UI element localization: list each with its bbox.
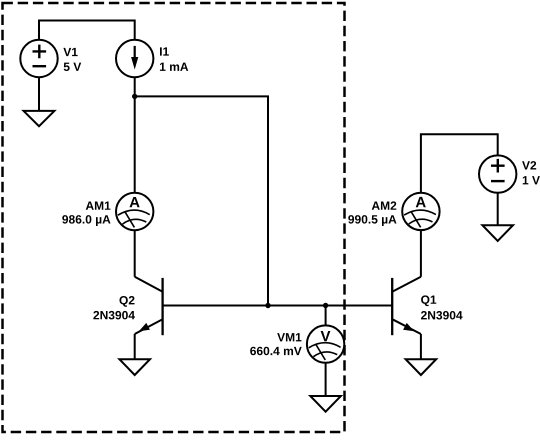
transistor Q1 (NPN 2N3904): [392, 277, 421, 335]
label AM2 990.5 uA: [348, 201, 396, 226]
label AM1 986.0 uA: [62, 202, 110, 226]
label VM1 660.4 mV: [250, 333, 302, 355]
ground (V2): [482, 225, 513, 241]
voltmeter VM1: [307, 325, 344, 362]
ground (VM1): [310, 396, 341, 412]
node junction at I1 output: [132, 94, 137, 99]
node junction: feedback branch on base bus: [265, 303, 270, 308]
wire: V2 to ground: [497, 193, 499, 225]
ammeter AM2: [402, 193, 439, 230]
wire: base bus to VM1: [325, 306, 327, 326]
ground (Q2): [119, 359, 150, 375]
node junction: VM1 tap on base bus: [323, 303, 328, 308]
label Q1 2N3904: [421, 295, 463, 319]
ground (V1): [24, 111, 55, 126]
wire: I1 to AM1: [134, 77, 136, 193]
label V2 1 V: [522, 161, 540, 184]
wire: AM2 top to V2 top: [421, 134, 498, 193]
ground (Q1): [406, 359, 437, 375]
label Q2 2N3904: [93, 296, 135, 319]
label V1 5 V: [63, 48, 81, 71]
ammeter AM1: [116, 193, 153, 230]
wire: Q2 emitter to ground: [134, 334, 136, 359]
wire: Q1 emitter to ground: [420, 334, 422, 359]
wire: junction right and down to base bus: [135, 96, 268, 305]
wire: base bus Q2 to Q1: [163, 305, 393, 307]
wire: AM1 to Q2 collector: [134, 230, 136, 277]
label I1 1 mA: [160, 47, 188, 71]
wire: VM1 to ground: [325, 363, 327, 396]
wire: V1 to ground: [38, 77, 40, 111]
wire: Q1 collector to AM2: [420, 230, 422, 277]
dashed subcircuit boundary: [3, 3, 345, 432]
wire: V1 top to I1 top: [39, 21, 135, 41]
voltage source V2: [479, 155, 516, 192]
current source I1: [116, 40, 153, 77]
voltage source V1: [20, 40, 57, 77]
transistor Q2 (NPN 2N3904): [135, 277, 163, 335]
